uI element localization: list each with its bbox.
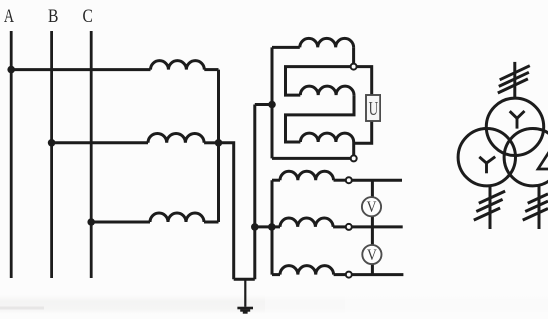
svg-text:A: A [4,5,14,27]
secondary winding a3 [280,266,334,275]
wire Da3 to terminal x [352,142,355,155]
primary winding L1 [151,61,205,70]
junction dot neutral / ground leg [215,139,223,147]
wire to winding a3 [272,273,280,276]
wire phase C to winding L3 [91,221,150,224]
wire a2 to terminal [333,225,346,228]
junction dot bus C / L3 [87,218,95,226]
wire phase B to winding L2 [52,141,148,144]
terminal secondary phase 2 [346,224,352,230]
wire star point to ground riser [255,225,280,228]
star mark HV [510,111,525,129]
junction dot bus B / L2 [48,139,56,147]
three-phase slashes LV lead [474,191,505,220]
voltmeter branch wire [371,180,374,274]
auxiliary winding Da3 [300,133,353,142]
junction dot riser / star point [251,223,259,231]
wire L2 to neutral [204,141,218,144]
bus C wire [90,31,93,278]
wire a1 to terminal [334,179,346,182]
ground bus bottom wire [234,278,255,281]
earth stem wire [244,279,246,307]
open-delta left vertical wire [271,47,274,158]
terminal secondary phase 3 [346,272,352,278]
primary winding L3 [150,213,204,222]
wire to winding a1 [272,179,280,182]
bus A wire [10,31,13,278]
terminal x (open delta bottom) [351,155,357,161]
secondary winding a1 [280,171,334,180]
bus B wire [50,31,53,278]
three-phase slashes top [498,66,530,93]
delta mark tertiary [538,151,548,170]
ground riser wire [253,105,256,280]
tertiary lead wire [538,186,541,229]
wire relay U to winding Da3 [354,121,372,143]
LV lead wire [489,186,492,229]
transformer symbol [458,62,548,229]
ground symbol [237,308,253,312]
HV lead wire [513,62,516,99]
winding circle tertiary [504,129,548,186]
winding circle LV [458,129,515,186]
wire a3 to terminal [334,273,346,276]
svg-text:C: C [83,6,93,27]
secondary phase line 3 [352,273,404,276]
secondary winding a2 [280,218,333,227]
secondary phase line 2 [352,225,403,228]
open-delta bottom wire [272,157,351,160]
star mark LV [479,157,495,174]
svg-text:V: V [367,199,377,216]
secondary phase line 1 [352,179,402,182]
voltmeter V2 [362,245,381,264]
wire Da1 to terminal a [352,47,355,63]
primary winding L2 [148,133,204,142]
terminal a (open delta top) [351,64,357,70]
relay U box [366,95,380,121]
winding circle HV [486,98,543,155]
auxiliary winding Da2 [300,86,354,95]
wire L1 to neutral [204,68,218,71]
junction dot star bracket [268,223,276,231]
svg-text:V: V [367,247,377,264]
junction dot bus A / L1 [7,66,15,74]
svg-text:B: B [48,6,58,27]
wire Da2 to Da3 [286,95,355,142]
voltmeter V1 [362,197,381,216]
auxiliary winding Da1 [300,38,354,47]
wire to winding Da1 [272,46,300,49]
wire L3 to neutral [204,221,219,224]
terminal secondary phase 1 [346,177,352,183]
wire phase A to winding L1 [11,68,150,71]
wire terminal a to relay U [357,67,372,95]
neutral vertical wire [217,70,220,222]
junction dot delta ground link [268,101,276,109]
neutral jog wire to ground leg [219,143,234,279]
wire terminal a to Da2 [286,67,351,96]
three-phase slashes tertiary lead [523,194,548,220]
secondary star bracket wire [271,180,274,274]
svg-text:U: U [369,97,379,119]
wire ground riser to open-delta [255,103,272,106]
